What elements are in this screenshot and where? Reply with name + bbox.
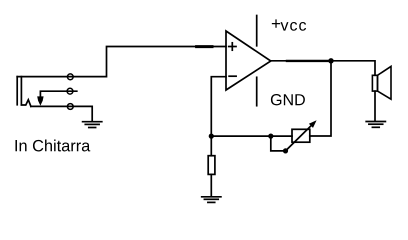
- jack switch arrow: [37, 96, 43, 105]
- jack pin circle sleeve: [67, 104, 73, 110]
- node feedback junction: [209, 134, 214, 139]
- connector J1 jack body: [17, 76, 21, 106]
- label +vcc: [272, 19, 306, 30]
- label In Chitarra: [15, 139, 90, 151]
- potentiometer wiper arrowhead: [309, 120, 317, 128]
- op-amp minus input marker: [229, 75, 236, 77]
- ground under resistor: [202, 197, 221, 203]
- label GND: [271, 94, 305, 105]
- op-amp plus input marker: [229, 43, 236, 50]
- jack pin circle tip: [67, 74, 73, 80]
- jack pin circle ring: [67, 88, 73, 94]
- wire resistor to ground: [210, 174, 212, 196]
- potentiometer wiper arrow shaft: [286, 125, 312, 151]
- op-amp U1 triangle: [226, 31, 271, 90]
- wire op-amp output to speaker: [271, 61, 375, 76]
- ground under speaker: [366, 122, 385, 128]
- wire feedback to potentiometer: [211, 135, 292, 137]
- wire jack top line to corner: [16, 76, 106, 78]
- speaker LS1 horn: [378, 66, 392, 99]
- wire speaker to ground: [374, 91, 376, 121]
- resistor R1: [208, 156, 215, 175]
- wire overlap segment on output: [287, 60, 329, 62]
- wire inverting input: [211, 77, 226, 136]
- speaker LS1 body: [372, 75, 377, 91]
- wire jack bottom line: [31, 106, 92, 121]
- jack tip contact bump: [21, 100, 31, 107]
- wire overlap segment on noninverting input: [197, 45, 212, 48]
- node output junction: [328, 58, 333, 63]
- node pot wiper junction: [283, 148, 288, 153]
- wire jack to op-amp noninverting input: [107, 47, 227, 77]
- ground under jack: [83, 122, 102, 128]
- potentiometer R2 body: [292, 129, 310, 142]
- wire jack middle stub: [40, 91, 76, 100]
- wire node to resistor: [210, 136, 212, 156]
- potentiometer wiper loop wire: [271, 136, 286, 151]
- op-amp +vcc power pin: [256, 16, 258, 46]
- node pot left junction: [268, 134, 273, 139]
- op-amp GND power pin: [256, 77, 258, 105]
- wire potentiometer to output leg: [310, 61, 331, 136]
